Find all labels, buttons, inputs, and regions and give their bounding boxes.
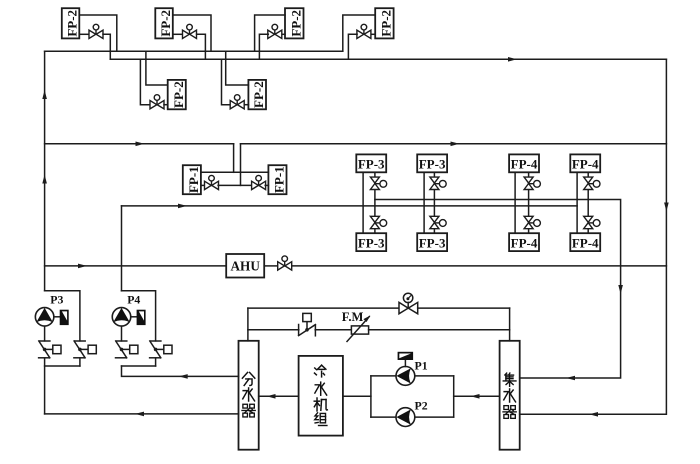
valve FP-2 unit3 <box>268 24 282 38</box>
pump loop bottom branch right <box>415 416 454 418</box>
arrow down on FP-3/4 return drop <box>618 285 623 294</box>
wire FP-4 col4 plain riser <box>576 172 578 233</box>
flow meter box <box>347 316 370 342</box>
wire FP-1 return drop x=240.5 <box>240 144 242 186</box>
arrow up on left main at y=179 <box>42 175 47 184</box>
butterfly valve bypass lower <box>299 313 316 335</box>
svg-text:FP-1: FP-1 <box>272 166 287 193</box>
fan coil FP-2 unit3 box (mirrored) <box>285 8 304 38</box>
wire FP-3 col1 valve riser <box>374 172 376 233</box>
wire left main valve-to-join <box>44 358 46 414</box>
fan coil FP-2 unit1 box <box>62 8 80 38</box>
wire FP-1 left valve port <box>201 184 205 186</box>
wire AHU supply line y=265.9 <box>45 265 227 267</box>
label 分水器 <box>242 372 254 385</box>
svg-text:P2: P2 <box>415 399 428 413</box>
arrow right on bus B <box>508 57 517 62</box>
arrow down on right main <box>664 203 669 212</box>
svg-text:F.M: F.M <box>342 310 364 324</box>
label 集水器 <box>503 373 516 386</box>
wire FP-1 supply drop x=233.6 <box>233 144 235 173</box>
svg-text:FP-2: FP-2 <box>251 81 266 108</box>
fan coil FP-4 col3 top box <box>509 154 539 172</box>
wire P3 join horizontal <box>45 365 80 367</box>
wire FP-4 col4 valve riser <box>587 172 589 233</box>
wire FP-3/4 supply bus y=205.9 <box>122 205 578 207</box>
wire P4 supply riser x=121.5 <box>121 206 123 291</box>
valve FP-1 left <box>205 175 219 189</box>
AHU box <box>226 254 264 278</box>
valve FP-4 col4 top <box>584 177 600 189</box>
valve FP-2 unit4 <box>357 24 371 38</box>
svg-text:FP-1: FP-1 <box>186 166 201 193</box>
wire FP-2 unit3 valve port right <box>281 33 285 35</box>
wire FP-3/4 return bus y=199.5 <box>375 200 621 379</box>
valve FP-1 right <box>252 175 266 189</box>
arrow left on collector feed <box>471 394 480 399</box>
wire pump loop to collector <box>454 395 500 397</box>
pump loop right vertical <box>453 376 455 417</box>
pump loop top branch <box>371 375 396 377</box>
butterfly valve P3 bypass <box>74 341 96 358</box>
collector box 集水器 <box>500 341 520 450</box>
wire chiller to distributor <box>259 395 299 397</box>
pump loop left vertical <box>370 376 372 417</box>
fan coil FP-3 col1 bottom box <box>356 233 386 251</box>
wire P4 down to distributor line <box>122 366 239 376</box>
bypass left riser into distributor top <box>247 308 249 341</box>
svg-text:FP-4: FP-4 <box>511 157 538 172</box>
wire FP-1 supply bus y=143.8 left segment <box>45 143 234 145</box>
wire bypass lower line right <box>369 329 510 331</box>
wire FP-2 unit6 top riser from bus A <box>226 51 249 85</box>
valve FP-3 col1 top <box>370 177 386 189</box>
svg-text:AHU: AHU <box>231 259 261 274</box>
wire AHU to valve <box>264 265 277 267</box>
svg-text:FP-2: FP-2 <box>158 10 173 37</box>
svg-text:P4: P4 <box>127 293 140 307</box>
fan coil FP-1 right box <box>268 165 286 194</box>
wire P3 bypass valve to join <box>79 358 81 366</box>
butterfly valve P4 main <box>116 341 138 358</box>
valve FP-3 col2 bottom <box>430 216 446 228</box>
arrow right on AHU line <box>78 264 87 269</box>
valve FP-4 col4 bottom <box>584 216 600 228</box>
svg-text:FP-2: FP-2 <box>379 10 394 37</box>
wire right return main x=666.4 <box>520 59 667 414</box>
wire FP-3 col2 valve riser <box>433 172 435 233</box>
wire bypass upper line right <box>418 307 510 309</box>
arrow right on FP-1 return bus <box>451 142 460 147</box>
wire bypass lower line left <box>248 329 299 331</box>
wire FP-2 unit2 valve port left <box>173 33 183 35</box>
wire FP-2 unit4 valve to bus B <box>348 34 357 59</box>
pump P2 <box>396 408 415 427</box>
wire AHU valve to right main <box>292 265 667 267</box>
arrow right on FP-1 supply bus <box>136 142 145 147</box>
valve FP-4 col3 bottom <box>524 216 540 228</box>
svg-text:FP-2: FP-2 <box>171 81 186 108</box>
valve FP-2 unit5 <box>150 95 164 109</box>
svg-text:FP-4: FP-4 <box>511 235 538 250</box>
pump loop bottom branch <box>371 416 396 418</box>
pump P1 <box>396 367 415 386</box>
wire FP-2 unit5 valve to box <box>164 104 168 106</box>
wire left supply main vertical x=44.6 <box>44 51 46 291</box>
wire FP-4 col3 valve riser <box>528 172 530 233</box>
arrow left chiller to distributor <box>267 394 276 399</box>
fan coil FP-2 unit2 box <box>155 8 173 38</box>
wire bus A (FP-2 supply) y=51.2 <box>45 50 343 52</box>
wire chiller to pump loop <box>343 395 371 397</box>
fan coil FP-4 col3 bottom box <box>509 233 539 251</box>
butterfly valve P4 bypass <box>150 341 172 358</box>
wire FP-4 col3 plain riser <box>514 172 516 233</box>
fan coil FP-3 col2 bottom box <box>417 233 447 251</box>
valve FP-4 col3 top <box>524 177 540 189</box>
arrow left on P4 distributor line <box>179 374 188 379</box>
wire FP-2 unit6 valve to box <box>244 104 248 106</box>
wire FP-1 right valve port <box>265 184 268 186</box>
pump loop top branch right <box>415 375 454 377</box>
fan coil FP-4 col4 top box <box>570 154 600 172</box>
bypass right riser into collector top <box>509 308 511 341</box>
wire P4 join horizontal <box>122 365 156 367</box>
fan coil FP-2 unit4 box (mirrored) <box>375 8 393 38</box>
wire FP-2 unit5 valve riser from bus B <box>140 59 150 104</box>
valve FP-2 unit2 <box>183 24 197 38</box>
arrow left on collector upper line <box>566 376 575 381</box>
wire FP-2 unit2 valve to bus B <box>197 34 206 59</box>
arrow left on bottom distributor line <box>135 412 144 417</box>
fan coil FP-2 unit5 box (lower row) <box>168 80 186 109</box>
svg-text:FP-2: FP-2 <box>64 10 79 37</box>
svg-text:FP-3: FP-3 <box>358 157 385 172</box>
flexible joint flag P1 <box>398 352 413 366</box>
wire FP-1 top supply line y=172.3 <box>201 171 269 173</box>
distributor box 分水器 <box>239 341 259 450</box>
svg-text:FP-3: FP-3 <box>358 235 385 250</box>
fan coil FP-3 col2 top box <box>417 154 447 172</box>
valve AHU <box>278 256 292 270</box>
svg-text:P1: P1 <box>415 358 428 372</box>
valve FP-3 col2 top <box>430 177 446 189</box>
wire FP-2 unit4 valve port right <box>371 33 376 35</box>
wire bottom line to distributor y=413.9 <box>45 413 239 415</box>
svg-text:FP-3: FP-3 <box>419 157 446 172</box>
wire P4 pump to valve <box>121 326 123 341</box>
valve FP-2 unit1 <box>89 24 103 38</box>
wire FP-1 return bus y=143.8 right segment <box>241 143 667 145</box>
wire FP-2 unit3 valve to bus B <box>259 34 268 59</box>
arrow up on left main at y=93 <box>42 90 47 99</box>
wire FP-3 col2 plain riser <box>423 172 425 233</box>
wire left main pump-to-valve <box>44 326 46 341</box>
label 冷水机组 <box>314 365 325 377</box>
fan coil FP-3 col1 top box <box>356 154 386 172</box>
pump P3 <box>35 308 54 327</box>
motor valve bypass upper <box>399 293 418 314</box>
wire FP-2 unit4 top port <box>343 15 375 51</box>
wire FP-1 valve line middle <box>218 184 252 186</box>
butterfly valve P3 main <box>39 341 61 358</box>
valve FP-3 col1 bottom <box>370 216 386 228</box>
wire bypass upper line left <box>248 307 399 309</box>
wire FP-2 unit5 top riser from bus A <box>146 51 168 85</box>
svg-text:FP-4: FP-4 <box>572 157 599 172</box>
pump P4 branch tee <box>122 291 156 341</box>
flexible joint flag P3 <box>54 310 68 324</box>
wire FP-2 unit3 top port <box>255 15 285 51</box>
wire FP-2 unit1 valve port left <box>79 33 89 35</box>
wire P4 bypass valve to join <box>155 358 157 366</box>
wire FP-2 unit1 valve to bus B <box>103 34 110 59</box>
wire bus B (FP-2 return) y=59.3 <box>110 58 666 60</box>
fan coil FP-4 col4 bottom box <box>570 233 600 251</box>
pump P3 branch tee <box>45 291 80 341</box>
arrow left on bottom collector line <box>589 412 598 417</box>
chiller box 冷水机组 <box>299 356 343 436</box>
svg-text:P3: P3 <box>50 293 63 307</box>
svg-text:FP-4: FP-4 <box>572 235 599 250</box>
wire FP-2 unit1 top port <box>79 15 117 51</box>
svg-text:FP-2: FP-2 <box>289 10 304 37</box>
pump P4 <box>112 308 131 327</box>
wire bypass lower line middle <box>315 329 351 331</box>
fan coil FP-2 unit6 box (lower row) <box>248 80 266 109</box>
valve FP-2 unit6 <box>230 95 244 109</box>
wire FP-3 col1 plain riser <box>362 172 364 233</box>
flexible joint flag P4 <box>131 310 145 324</box>
fan coil FP-1 left box <box>183 165 201 194</box>
wire FP-2 unit6 valve riser from bus B <box>222 59 230 104</box>
svg-text:FP-3: FP-3 <box>419 235 446 250</box>
arrow right on FP-3/4 supply bus <box>178 204 187 209</box>
wire FP-2 unit2 top port <box>173 15 211 51</box>
